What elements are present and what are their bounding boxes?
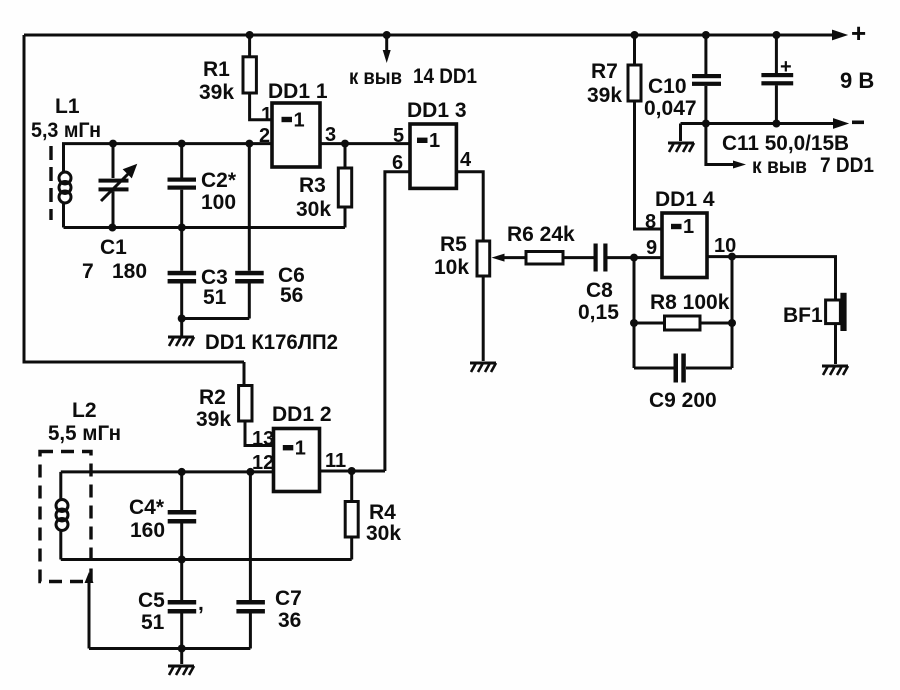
resistor R5 potentiometer bbox=[434, 233, 526, 361]
op-amp U1 gate DD1.2 bbox=[252, 403, 346, 492]
wire left border bbox=[24, 35, 244, 362]
svg-text:1: 1 bbox=[295, 438, 306, 460]
svg-text:51: 51 bbox=[203, 286, 227, 309]
svg-text:+: + bbox=[780, 56, 792, 78]
svg-text:+: + bbox=[851, 18, 866, 48]
svg-text:BF1: BF1 bbox=[783, 304, 823, 327]
wire pin4 out bbox=[456, 172, 483, 241]
resistor R8 bbox=[630, 291, 736, 330]
svg-text:39k: 39k bbox=[196, 408, 231, 431]
svg-text:13: 13 bbox=[252, 428, 274, 450]
svg-text:к выв: к выв bbox=[349, 66, 402, 89]
node top rail arrow + bbox=[833, 18, 866, 48]
op-amp U1 gate DD1.1 bbox=[259, 80, 336, 167]
svg-text:R1: R1 bbox=[203, 58, 230, 81]
speaker BF1 bbox=[783, 293, 847, 364]
node к выв 14 DD1 arrow bbox=[349, 31, 477, 89]
svg-text:9 В: 9 В bbox=[840, 68, 874, 93]
svg-text:L1: L1 bbox=[55, 95, 80, 118]
svg-text:R3: R3 bbox=[299, 174, 326, 197]
svg-text:DD1 К176ЛП2: DD1 К176ЛП2 bbox=[205, 331, 338, 354]
wire tank top to pin2 bbox=[62, 142, 272, 145]
ground bottom bbox=[168, 649, 194, 676]
wire shield to ground bbox=[85, 572, 94, 649]
op-amp U1 gate DD1.3 bbox=[392, 99, 472, 188]
svg-text:0,15: 0,15 bbox=[578, 301, 619, 324]
capacitor C6 bbox=[235, 144, 305, 319]
inductor L1 bbox=[31, 95, 101, 228]
svg-text:1: 1 bbox=[429, 130, 440, 152]
svg-text:C4*: C4* bbox=[129, 496, 165, 519]
svg-text:R8 100k: R8 100k bbox=[650, 291, 730, 314]
op-amp U1 gate DD1.4 bbox=[645, 188, 736, 278]
svg-text:39k: 39k bbox=[199, 81, 234, 104]
svg-text:DD1 2: DD1 2 bbox=[272, 403, 332, 426]
capacitor C5 bbox=[138, 560, 204, 649]
svg-text:к выв: к выв bbox=[752, 155, 807, 178]
wire C3-C6 bottom bbox=[182, 317, 250, 320]
svg-text:100: 100 bbox=[201, 191, 236, 214]
svg-text:DD1 1: DD1 1 bbox=[268, 80, 328, 103]
svg-text:5: 5 bbox=[393, 125, 404, 147]
svg-text:11: 11 bbox=[325, 450, 346, 472]
svg-text:R5: R5 bbox=[440, 233, 467, 256]
svg-text:DD1 3: DD1 3 bbox=[407, 99, 467, 122]
wire tank bottom bbox=[64, 226, 346, 229]
capacitor C7 bbox=[236, 472, 301, 649]
svg-text:0,047: 0,047 bbox=[644, 97, 697, 120]
svg-text:10k: 10k bbox=[434, 256, 469, 279]
svg-text:1: 1 bbox=[294, 110, 305, 132]
node tank bottom dots bbox=[108, 224, 185, 232]
inductor L2 with shield bbox=[40, 399, 121, 582]
svg-text:39k: 39k bbox=[587, 84, 622, 107]
svg-text:9: 9 bbox=[646, 237, 657, 259]
wire pin9 node bbox=[633, 258, 636, 368]
resistor R6 bbox=[507, 223, 594, 264]
svg-text:DD1 4: DD1 4 bbox=[655, 188, 715, 211]
svg-text:C1: C1 bbox=[100, 236, 127, 259]
resistor R3 bbox=[296, 144, 352, 228]
wire pin3 out bbox=[320, 142, 410, 145]
svg-text:1: 1 bbox=[261, 104, 272, 126]
svg-text:8: 8 bbox=[645, 211, 656, 233]
svg-text:180: 180 bbox=[112, 260, 147, 283]
svg-text:C2*: C2* bbox=[201, 169, 237, 192]
node C3 bottom dot bbox=[178, 315, 186, 323]
svg-text:4: 4 bbox=[460, 149, 472, 171]
svg-text:C7: C7 bbox=[275, 587, 302, 610]
capacitor C10 bbox=[644, 31, 721, 124]
resistor R2 bbox=[196, 362, 274, 446]
svg-text:1: 1 bbox=[683, 216, 694, 238]
svg-text:R7: R7 bbox=[591, 60, 618, 83]
svg-text:R2: R2 bbox=[199, 386, 226, 409]
svg-text:C11 50,0/15В: C11 50,0/15В bbox=[722, 132, 849, 155]
svg-text:,: , bbox=[198, 592, 204, 615]
svg-text:C10: C10 bbox=[648, 75, 687, 98]
svg-text:160: 160 bbox=[130, 519, 165, 542]
capacitor C2 bbox=[168, 144, 237, 228]
svg-text:5,3 мГн: 5,3 мГн bbox=[31, 119, 101, 142]
svg-text:36: 36 bbox=[278, 609, 301, 632]
capacitor C1 variable bbox=[82, 144, 147, 283]
wire top +9V rail bbox=[24, 34, 833, 37]
capacitor C3 bbox=[168, 228, 228, 319]
capacitor C4 bbox=[129, 472, 196, 560]
svg-text:R6 24k: R6 24k bbox=[507, 223, 575, 246]
wire L2 bottom to R4 bbox=[61, 558, 352, 561]
wire pin10 out bbox=[707, 257, 836, 300]
svg-text:7: 7 bbox=[82, 260, 94, 283]
ground under C3 bbox=[168, 319, 194, 347]
svg-text:51: 51 bbox=[141, 611, 165, 634]
svg-text:C5: C5 bbox=[138, 589, 165, 612]
svg-text:R4: R4 bbox=[369, 501, 396, 524]
wire minus rail bbox=[681, 120, 865, 128]
wire bottom ground rail bbox=[89, 647, 250, 650]
resistor R7 bbox=[587, 31, 662, 229]
wire pin11 out bbox=[320, 470, 385, 473]
node к выв 7 DD1 arrow bbox=[706, 124, 874, 179]
svg-text:14 DD1: 14 DD1 bbox=[413, 65, 477, 88]
capacitor C11 polarized bbox=[761, 31, 793, 124]
svg-text:7 DD1: 7 DD1 bbox=[820, 154, 874, 177]
svg-text:30k: 30k bbox=[296, 198, 331, 221]
resistor R4 bbox=[345, 471, 401, 560]
svg-text:5,5 мГн: 5,5 мГн bbox=[48, 422, 121, 445]
capacitor C9 bbox=[634, 257, 732, 412]
svg-text:C9 200: C9 200 bbox=[649, 389, 717, 412]
svg-text:56: 56 bbox=[280, 284, 303, 307]
svg-text:30k: 30k bbox=[366, 522, 401, 545]
wire L2 top to pin12 bbox=[61, 470, 274, 473]
ground under R5 bbox=[470, 363, 496, 372]
svg-text:C8: C8 bbox=[586, 279, 613, 302]
node pin2 net dots bbox=[109, 140, 349, 148]
ground under minus rail bbox=[668, 124, 694, 153]
resistor R1 bbox=[199, 31, 272, 120]
svg-text:L2: L2 bbox=[72, 399, 97, 422]
capacitor C8 bbox=[578, 244, 662, 325]
wire pin6 riser bbox=[385, 172, 410, 471]
ground under BF1 bbox=[822, 366, 848, 375]
